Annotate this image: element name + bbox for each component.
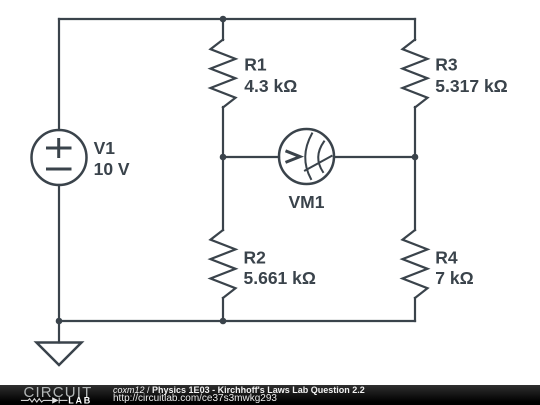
svg-text:5.661 kΩ: 5.661 kΩ — [244, 268, 316, 288]
svg-text:V1: V1 — [94, 138, 116, 158]
svg-text:4.3 kΩ: 4.3 kΩ — [244, 76, 297, 96]
wire top rail right segment — [223, 18, 415, 20]
wire right branch R3 to node C — [414, 107, 416, 157]
wire ground stem — [58, 321, 60, 343]
wire middle branch node B to R2 — [222, 157, 224, 230]
wire middle branch top lead to R1 — [222, 19, 224, 40]
svg-text:10 V: 10 V — [94, 159, 130, 179]
wire middle branch R2 to bottom rail — [222, 298, 224, 321]
svg-text:R2: R2 — [244, 248, 267, 268]
wire bottom rail left segment — [59, 320, 223, 322]
footer credit line 1 — [113, 386, 365, 395]
wire node B to voltmeter — [223, 156, 279, 158]
svg-text:R1: R1 — [244, 55, 267, 75]
wire left branch from V1 to bottom rail — [58, 185, 60, 321]
ground — [37, 343, 82, 366]
node dot B middle — [220, 154, 227, 161]
wire bottom rail right segment — [223, 320, 415, 322]
resistor R2 — [211, 230, 316, 298]
svg-text:LAB: LAB — [68, 396, 92, 405]
node dot top middle — [220, 16, 227, 23]
voltmeter VM1 — [279, 129, 334, 212]
wire right branch node C to R4 — [414, 157, 416, 230]
wire middle branch R1 to node B — [222, 107, 224, 157]
wire left branch from top rail to V1 — [58, 19, 60, 130]
footer credit line 2 — [113, 394, 277, 404]
CircuitLab logo — [0, 385, 110, 405]
svg-text:R4: R4 — [435, 248, 458, 268]
svg-text:5.317 kΩ: 5.317 kΩ — [435, 76, 507, 96]
svg-text:R3: R3 — [435, 55, 458, 75]
wire right branch top lead to R3 — [414, 19, 416, 40]
node dot ground — [56, 318, 63, 325]
voltage source V1 — [32, 130, 130, 185]
svg-text:7 kΩ: 7 kΩ — [435, 268, 473, 288]
node dot bottom middle — [220, 318, 227, 325]
wire voltmeter to node C — [334, 156, 415, 158]
resistor R4 — [403, 230, 474, 298]
wire top rail left segment — [59, 18, 223, 20]
resistor R1 — [211, 40, 298, 108]
svg-text:VM1: VM1 — [289, 192, 325, 212]
wire right branch R4 to bottom rail — [414, 298, 416, 321]
node dot C right — [412, 154, 419, 161]
resistor R3 — [403, 40, 508, 108]
